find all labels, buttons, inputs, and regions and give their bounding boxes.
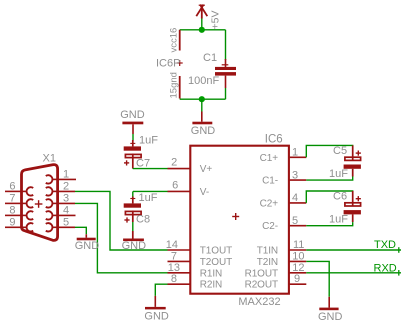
IC6 pin 4 stub C2+ bbox=[289, 202, 306, 204]
svg-text:C1-: C1- bbox=[262, 176, 278, 187]
X1 pin 3 stub bbox=[59, 202, 75, 204]
svg-text:T2OUT: T2OUT bbox=[200, 257, 232, 268]
junction bottom rail bbox=[199, 96, 205, 102]
svg-text:1uF: 1uF bbox=[139, 192, 158, 204]
svg-text:1uF: 1uF bbox=[139, 134, 158, 146]
svg-text:1: 1 bbox=[63, 168, 69, 180]
svg-text:TXD: TXD bbox=[374, 239, 396, 251]
capacitor C1 plates bbox=[215, 67, 236, 70]
capacitor C7 bbox=[124, 140, 141, 169]
C1 origin cross bbox=[222, 64, 229, 66]
svg-text:11: 11 bbox=[293, 239, 304, 251]
svg-text:7: 7 bbox=[9, 192, 15, 204]
svg-text:2: 2 bbox=[171, 157, 177, 169]
X1 contact pin 9 bbox=[22, 223, 33, 231]
wire bottom rail bbox=[180, 98, 226, 100]
svg-text:T2IN: T2IN bbox=[257, 257, 278, 268]
svg-text:6: 6 bbox=[172, 179, 178, 191]
IC6 origin cross bbox=[232, 213, 239, 220]
X1 origin cross bbox=[35, 200, 43, 208]
capacitor C1 lead bottom bbox=[225, 76, 227, 88]
IC6 pin 12 stub R1OUT bbox=[289, 272, 306, 274]
X1 pin 2 stub bbox=[59, 190, 75, 192]
wire gnd to C7 bbox=[132, 134, 134, 141]
ground d (X1 pin5) bbox=[75, 234, 100, 252]
net end cross TXD bbox=[398, 247, 400, 253]
svg-text:+5V: +5V bbox=[210, 11, 222, 30]
svg-text:C1: C1 bbox=[203, 52, 217, 64]
X1 contact pin 2 bbox=[46, 187, 58, 195]
IC6 pin 1 stub C1+ bbox=[289, 156, 306, 158]
X1 pin 9 stub bbox=[5, 226, 21, 228]
IC6 pin 9 stub R2OUT bbox=[289, 283, 306, 285]
svg-text:1: 1 bbox=[292, 147, 298, 159]
IC6 pin 5 stub C2- bbox=[289, 225, 306, 227]
IC6 pin 8 stub R2IN bbox=[168, 283, 191, 285]
svg-text:R1IN: R1IN bbox=[200, 268, 222, 279]
X1 pin 5 stub bbox=[59, 226, 75, 228]
capacitor C1 lead top bbox=[225, 30, 227, 60]
svg-text:6: 6 bbox=[9, 180, 15, 192]
IC6 pin 13 stub R1IN bbox=[168, 272, 191, 274]
svg-text:C8: C8 bbox=[136, 214, 150, 226]
svg-text:C1+: C1+ bbox=[260, 153, 279, 164]
op-amp IC6P power symbol vcc pin 16 bbox=[179, 30, 181, 51]
X1 contact pin 8 bbox=[22, 211, 33, 219]
capacitor C5 bbox=[344, 145, 361, 176]
svg-text:T1OUT: T1OUT bbox=[200, 246, 232, 257]
X1 contact pin 3 bbox=[46, 199, 58, 207]
wire +5V lead bbox=[201, 19, 203, 30]
IC6 box MAX232 bbox=[190, 146, 289, 294]
wire C1+ to C5 bbox=[306, 145, 352, 157]
ground c (under C8) bbox=[122, 231, 147, 252]
svg-text:GND: GND bbox=[144, 310, 169, 322]
wire T1IN to TXD bbox=[306, 249, 401, 251]
svg-text:C2-: C2- bbox=[262, 221, 278, 232]
svg-text:3: 3 bbox=[292, 169, 298, 181]
svg-text:V+: V+ bbox=[200, 164, 213, 175]
wire T2IN to gnd f bbox=[306, 261, 329, 296]
wire to ground b bbox=[201, 99, 203, 111]
svg-text:C5: C5 bbox=[333, 145, 347, 157]
junction top rail bbox=[199, 27, 205, 33]
svg-text:X1: X1 bbox=[43, 153, 56, 165]
op-amp IC6P power symbol gnd pin 15 bbox=[179, 76, 181, 99]
svg-text:15gnd: 15gnd bbox=[169, 72, 180, 98]
X1 contact pin 6 bbox=[22, 187, 33, 195]
capacitor C8 bbox=[124, 191, 141, 222]
svg-text:RXD: RXD bbox=[374, 262, 397, 274]
svg-text:GND: GND bbox=[318, 311, 343, 323]
IC6 pin names left bbox=[200, 164, 232, 291]
wire C6 to C2- bbox=[306, 222, 352, 226]
svg-text:4: 4 bbox=[292, 192, 298, 204]
X1 pin 8 stub bbox=[5, 214, 21, 216]
IC6P origin cross bbox=[177, 60, 183, 66]
svg-text:R2OUT: R2OUT bbox=[245, 280, 278, 291]
svg-text:10: 10 bbox=[292, 250, 304, 262]
svg-text:V-: V- bbox=[200, 187, 209, 198]
svg-text:R1OUT: R1OUT bbox=[245, 268, 278, 279]
svg-text:4: 4 bbox=[63, 204, 69, 216]
svg-text:C6: C6 bbox=[333, 190, 347, 202]
svg-text:2: 2 bbox=[63, 180, 69, 192]
X1 pin 6 stub bbox=[5, 190, 21, 192]
wire R2IN to gnd e bbox=[155, 284, 167, 296]
svg-text:MAX232: MAX232 bbox=[238, 296, 280, 308]
svg-text:GND: GND bbox=[75, 240, 100, 252]
svg-text:C2+: C2+ bbox=[260, 198, 279, 209]
ground a (above C7, inverted) bbox=[120, 109, 145, 134]
wire C2+ to C6 bbox=[306, 191, 352, 203]
svg-text:12: 12 bbox=[292, 262, 304, 274]
wire C5 to C1- bbox=[306, 177, 352, 181]
svg-text:IC6: IC6 bbox=[265, 134, 283, 146]
X1 contact pin 1 bbox=[46, 175, 58, 183]
wire X1.3 to R1IN bbox=[75, 203, 168, 272]
svg-text:3: 3 bbox=[63, 192, 69, 204]
svg-text:8: 8 bbox=[9, 204, 15, 216]
IC6 pin 14 stub T1OUT bbox=[168, 249, 191, 251]
wire C7 to V+ bbox=[133, 168, 168, 170]
svg-text:vcc16: vcc16 bbox=[169, 28, 180, 53]
svg-text:1uF: 1uF bbox=[329, 168, 348, 180]
connector X1 body bbox=[22, 165, 58, 241]
svg-text:8: 8 bbox=[171, 273, 177, 285]
svg-text:T1IN: T1IN bbox=[257, 246, 278, 257]
X1 pin 7 stub bbox=[5, 202, 21, 204]
wire top rail VCC bbox=[180, 29, 226, 31]
ground e (under R2IN) bbox=[144, 296, 169, 323]
net end cross RXD bbox=[398, 270, 400, 276]
IC6 pin 10 stub T2IN bbox=[289, 260, 306, 262]
svg-text:1uF: 1uF bbox=[329, 214, 348, 226]
wire X1.5 to gnd d bbox=[75, 227, 86, 234]
IC6 pin 7 stub T2OUT bbox=[168, 260, 191, 262]
wire X1.2 to T1OUT bbox=[75, 191, 168, 250]
svg-text:9: 9 bbox=[294, 273, 300, 285]
ground f (bottom right) bbox=[318, 297, 343, 323]
svg-text:5: 5 bbox=[63, 216, 69, 228]
svg-text:9: 9 bbox=[9, 216, 15, 228]
pin 2 stub V+ bbox=[168, 168, 191, 170]
svg-text:IC6P: IC6P bbox=[156, 58, 180, 70]
wire R1OUT to RXD bbox=[306, 272, 401, 274]
X1 contact pin 5 bbox=[46, 223, 58, 231]
capacitor C6 bbox=[344, 191, 361, 222]
svg-text:GND: GND bbox=[191, 125, 216, 137]
svg-text:R2IN: R2IN bbox=[200, 280, 222, 291]
supply +5V arrow symbol bbox=[196, 5, 207, 19]
svg-text:100nF: 100nF bbox=[188, 75, 219, 87]
IC6 pin 3 stub C1- bbox=[289, 179, 306, 181]
svg-text:7: 7 bbox=[171, 250, 177, 262]
wire C8 to gnd c bbox=[132, 222, 134, 231]
X1 pin 1 stub bbox=[59, 178, 76, 180]
IC6 pin names right bbox=[245, 153, 279, 291]
svg-text:13: 13 bbox=[168, 262, 180, 274]
svg-text:5: 5 bbox=[292, 215, 298, 227]
svg-text:14: 14 bbox=[166, 239, 178, 251]
IC6 pin 11 stub T1IN bbox=[289, 249, 306, 251]
X1 contact pin 4 bbox=[46, 211, 58, 219]
pin 6 stub V- bbox=[168, 190, 191, 192]
wire C8 to V- bbox=[133, 190, 168, 192]
svg-text:GND: GND bbox=[120, 109, 145, 121]
ground b (under C1 rail) bbox=[191, 112, 216, 138]
X1 contact pin 7 bbox=[22, 199, 33, 207]
svg-text:C7: C7 bbox=[136, 158, 150, 170]
X1 pin 4 stub bbox=[59, 214, 76, 216]
